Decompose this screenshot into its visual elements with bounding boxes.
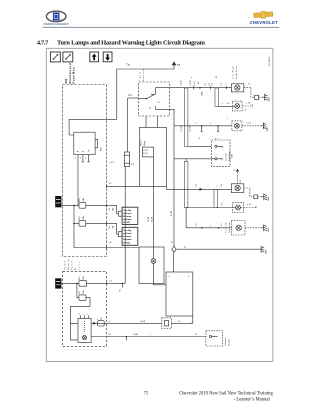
connector X2 upper (black) [55, 196, 61, 207]
svg-text:a: a [222, 147, 223, 149]
svg-text:0.5 BN: 0.5 BN [151, 216, 153, 222]
svg-text:9.2: 9.2 [149, 108, 152, 110]
svg-text:G102: G102 [265, 250, 267, 254]
pin tick box edge F16 [105, 282, 107, 285]
svg-text:Chevrolet 2010 New Sail New Te: Chevrolet 2010 New Sail New Technical Tr… [179, 392, 273, 397]
svg-text:0.5: 0.5 [109, 226, 111, 229]
svg-text:4: 4 [85, 157, 86, 159]
wire fuse F16 row [61, 282, 125, 284]
svg-text:0.5: 0.5 [195, 334, 197, 336]
svg-text:a 0.5: a 0.5 [247, 123, 251, 125]
flasher unit K.C [124, 152, 129, 167]
splice diamond [172, 246, 176, 252]
junction dot row1 [199, 87, 201, 89]
svg-text:X1: X1 [216, 76, 218, 78]
connector detail dashed box [211, 140, 230, 166]
wire module bottom to hazard row [191, 316, 193, 323]
svg-text:G201: G201 [268, 97, 270, 101]
relay pin c stub [82, 155, 84, 162]
svg-text:a: a [217, 185, 218, 187]
svg-text:9.1: 9.1 [158, 102, 161, 104]
svg-text:0.5: 0.5 [222, 203, 224, 205]
relay pin d stub [87, 155, 89, 162]
svg-text:0.5: 0.5 [178, 321, 180, 323]
loom R1 lower link [185, 159, 187, 162]
wire row6 feed [185, 208, 187, 228]
svg-text:75: 75 [144, 391, 149, 396]
wire R1 to connector detail [188, 145, 211, 147]
svg-text:0.5: 0.5 [208, 83, 210, 86]
loom R1 lower [184, 161, 188, 207]
junction dot F16 [76, 283, 78, 285]
diagram frame [46, 48, 273, 361]
pin tick X51 edge branch [105, 246, 107, 249]
module box right [166, 272, 193, 316]
connector square lamp E1 [255, 95, 259, 99]
svg-text:0.5: 0.5 [172, 241, 174, 243]
wire F17 to hazard switch [70, 298, 90, 324]
svg-text:0.5 GR: 0.5 GR [140, 321, 146, 323]
wire hazard out row [91, 322, 193, 324]
svg-text:Indicator: Indicator [123, 218, 132, 221]
toolbar icon zoom-in [63, 52, 73, 62]
wire connector detail lower feed [174, 158, 215, 160]
loom R1 upper [184, 88, 188, 146]
wire ground row7 [176, 248, 259, 250]
hazard out fuse comp [98, 321, 105, 326]
svg-text:a 0.5: a 0.5 [246, 103, 250, 105]
svg-text:Turn Sig: Turn Sig [123, 230, 132, 232]
svg-text:F17: F17 [79, 291, 81, 294]
pin tick X51 edge mid [105, 185, 107, 188]
junction dot row2 hazard [126, 336, 128, 341]
fuse F16 [79, 281, 87, 287]
wire feed to turn switch [128, 97, 139, 99]
svg-text:Rt Lamp: Rt Lamp [123, 215, 132, 218]
header rule [43, 26, 280, 28]
turn signal switch dashed box [139, 82, 170, 116]
pin ticks row1 [194, 86, 227, 89]
lamp E3 turn right rear [232, 121, 242, 131]
turn switch contact left [155, 106, 169, 109]
svg-text:0.5: 0.5 [221, 223, 223, 225]
svg-text:- Learner’s Manual: - Learner’s Manual [234, 397, 271, 402]
wire hazard out row2 [91, 336, 206, 338]
svg-text:X4 K23: X4 K23 [123, 242, 131, 245]
relay K22 box [74, 132, 98, 154]
svg-text:8: 8 [75, 157, 76, 159]
svg-text:0.5: 0.5 [196, 223, 198, 225]
svg-text:9.c: 9.c [108, 321, 110, 323]
wire instrument feed [153, 157, 155, 259]
fuse F19 [79, 203, 86, 209]
toolbar icon page-up [90, 52, 99, 62]
junction dot hazard column [122, 283, 124, 288]
ground G202 [261, 122, 267, 129]
connector square lamp E4 [254, 195, 258, 199]
svg-text:G101: G101 [268, 197, 270, 201]
svg-text:X1: X1 [198, 82, 200, 84]
svg-text:T.b: T.b [234, 169, 236, 171]
wire relay feed [69, 119, 117, 135]
svg-text:Warning: Warning [68, 260, 70, 271]
wire fuse row to hazard relay [106, 185, 139, 187]
svg-text:and Instr: and Instr [123, 232, 132, 235]
connector detail dashed small [162, 318, 172, 329]
svg-text:a: a [222, 103, 223, 105]
svg-text:F20: F20 [79, 217, 81, 220]
svg-text:F19: F19 [79, 199, 81, 202]
svg-text:a: a [210, 123, 211, 125]
svg-text:X51: X51 [64, 78, 68, 83]
wire lamp2 feed [219, 105, 235, 107]
junction dots row6 [201, 227, 220, 229]
wire lamp E2 out dashed [242, 104, 252, 107]
wire row3 [174, 125, 232, 127]
loom R2 lower [214, 189, 218, 207]
svg-text:a: a [208, 185, 209, 187]
svg-text:Turn Sig: Turn Sig [123, 210, 132, 212]
svg-text:Indicator: Indicator [123, 238, 132, 241]
lamp E1 turn right front [231, 84, 244, 92]
svg-text:Sounder: Sounder [229, 339, 231, 346]
junction dot row3 b with stub [217, 125, 219, 131]
svg-text:Lamp Front: Lamp Front [228, 151, 231, 161]
svg-text:0.5 GR: 0.5 GR [190, 125, 192, 131]
lamp E4 turn left front [231, 184, 244, 193]
svg-text:8: 8 [79, 314, 81, 315]
hazard switch pins top [81, 315, 89, 318]
svg-text:Hazard: Hazard [64, 261, 66, 270]
wire lamp5 row [186, 207, 235, 209]
svg-text:Lt Lamp: Lt Lamp [123, 235, 132, 238]
loom R2 upper [215, 88, 219, 106]
svg-text:a: a [150, 334, 151, 336]
svg-text:a 9.c: a 9.c [109, 242, 113, 244]
connector X2 lower (black) [55, 278, 61, 288]
svg-text:X2: X2 [75, 268, 77, 270]
svg-text:X1: X1 [199, 137, 201, 139]
fuse box X51 dashed outline [62, 85, 106, 257]
pin tick X51 edge F19 [105, 204, 107, 207]
turn switch lower pins [146, 116, 158, 127]
relay pin a wire to fuse junction [77, 155, 79, 206]
svg-text:Instrument: Instrument [224, 337, 227, 346]
svg-text:7: 7 [83, 314, 85, 315]
ground G101 [262, 193, 268, 200]
wire hazard switch feeds [70, 323, 78, 340]
svg-text:Lamp Rear: Lamp Rear [229, 222, 231, 233]
wire lamp E3 to ground dashed [242, 125, 261, 127]
svg-text:a: a [191, 77, 193, 78]
svg-text:Hazard: Hazard [140, 140, 143, 146]
combination switch dashed outline [63, 271, 107, 346]
junction dot F19 [73, 205, 75, 207]
hazard switch box [78, 318, 91, 342]
svg-text:0.5 BU: 0.5 BU [190, 79, 192, 85]
wire lamp5 out dashed [241, 206, 257, 209]
wire left-turn row4 [166, 186, 231, 189]
svg-text:2: 2 [87, 314, 89, 315]
svg-text:X2: X2 [245, 110, 247, 112]
indicator module box 2 [118, 227, 138, 245]
svg-text:6: 6 [80, 157, 81, 159]
wire F20 branch to instrument box [74, 223, 139, 247]
svg-text:Switch: Switch [142, 68, 145, 81]
instrument box mid [139, 247, 164, 284]
svg-text:9.8: 9.8 [108, 334, 110, 336]
svg-text:CHEVROLET: CHEVROLET [250, 20, 278, 25]
svg-text:a 0.5: a 0.5 [247, 204, 251, 206]
svg-text:4.7.7: 4.7.7 [37, 39, 49, 46]
wire row3 corner [169, 109, 174, 126]
wire lamp E1 to ground dashed [244, 88, 262, 98]
junction dot F20 [73, 223, 75, 225]
svg-text:K.C: K.C [128, 94, 132, 97]
svg-text:0.5 BU: 0.5 BU [181, 79, 183, 85]
svg-text:X1: X1 [215, 137, 217, 139]
svg-text:9.2: 9.2 [110, 281, 113, 283]
svg-text:Dashboard: Dashboard [68, 63, 72, 83]
svg-text:X4 K22: X4 K22 [123, 221, 131, 224]
hazard relay solid box [140, 127, 167, 186]
relay pin dots inside [77, 150, 89, 152]
svg-text:SHANGHAI GM DAEWOO: SHANGHAI GM DAEWOO [43, 23, 69, 26]
wire instrument to module [154, 263, 167, 284]
svg-text:a: a [227, 118, 228, 120]
wire lamp E6 to ground dashed [245, 227, 261, 229]
svg-text:G103: G103 [268, 228, 270, 232]
wire battery feed T.a [117, 69, 169, 119]
wire right-turn row1 [169, 87, 231, 89]
svg-text:0.5 GR: 0.5 GR [181, 125, 183, 131]
splice arrow row4 [200, 188, 204, 191]
svg-text:Turn Left: Turn Left [225, 153, 228, 161]
svg-text:0.5: 0.5 [109, 208, 111, 211]
wire hazard feed to module [173, 252, 175, 272]
header logo right (chevrolet bowtie) [254, 11, 273, 19]
instrument cluster dashed box [206, 331, 223, 346]
fuse F20 [79, 221, 86, 227]
svg-text:Switch: Switch [71, 261, 74, 270]
wire lamp E4 to ground dashed [244, 188, 262, 197]
svg-text:Turn Lamps and Hazard Warning: Turn Lamps and Hazard Warning Lights Cir… [57, 39, 206, 46]
fuse F17 [79, 295, 86, 300]
svg-text:S3100468: S3100468 [269, 56, 271, 66]
wire fuse F20 row [74, 223, 118, 234]
svg-text:0.5: 0.5 [221, 184, 223, 186]
svg-text:0.5: 0.5 [119, 289, 121, 291]
svg-text:a: a [169, 276, 170, 278]
svg-text:F16: F16 [79, 277, 81, 280]
svg-text:b: b [188, 276, 189, 278]
junction dot row3 a with stub [201, 125, 203, 131]
svg-text:0.5: 0.5 [227, 103, 229, 105]
ground G201 [262, 94, 267, 101]
svg-text:S201: S201 [202, 92, 204, 96]
svg-text:0.5 BK: 0.5 BK [171, 210, 173, 216]
svg-text:0.5 Vi: 0.5 Vi [194, 80, 196, 85]
svg-text:0.5: 0.5 [240, 180, 242, 182]
svg-text:0.5: 0.5 [212, 83, 214, 86]
turn switch contact right [151, 88, 169, 95]
wire flasher column upper [127, 98, 129, 152]
svg-text:G202: G202 [267, 127, 269, 131]
lamp E6 turn left rear [231, 221, 245, 236]
svg-text:and Instr: and Instr [123, 212, 132, 215]
svg-text:Relay: Relay [144, 141, 146, 146]
svg-text:F: F [97, 319, 99, 320]
svg-text:Lamp Front: Lamp Front [235, 66, 238, 79]
svg-text:Turn Left: Turn Left [225, 222, 228, 234]
svg-text:Fuse Box: Fuse Box [72, 67, 76, 84]
wire lamp6 row [186, 227, 231, 229]
svg-text:0.5: 0.5 [196, 184, 198, 186]
splice arrow hazard out [93, 322, 96, 325]
svg-text:b: b [222, 160, 223, 162]
svg-text:0.5 BN: 0.5 BN [133, 334, 139, 336]
ground G103 [261, 224, 267, 231]
svg-text:T.a.: T.a. [126, 63, 130, 67]
lamp E5 side repeater left [233, 203, 244, 213]
lamp E2 side repeater right [232, 101, 242, 111]
header logo left (SGM ellipse emblem) [46, 11, 66, 22]
svg-text:9.5: 9.5 [109, 183, 112, 185]
indicator module box 1 [118, 207, 138, 224]
svg-text:0.5: 0.5 [205, 83, 207, 86]
svg-text:Turn Right: Turn Right [232, 66, 235, 79]
svg-text:EC 4.7: EC 4.7 [143, 153, 148, 155]
wire hazard feed vertical [173, 126, 175, 246]
svg-text:X202: X202 [231, 154, 233, 158]
svg-text:1a: 1a [184, 247, 186, 249]
offpage connector arrow B+ [169, 62, 176, 69]
svg-text:0.5: 0.5 [221, 83, 223, 86]
ground G102 row7 [259, 246, 265, 253]
svg-text:a: a [210, 225, 211, 227]
offpage arrow above lamp E4 [236, 169, 239, 184]
svg-text:a: a [226, 84, 228, 85]
svg-text:0.5 BN: 0.5 BN [148, 216, 150, 222]
turn switch blade [139, 95, 155, 100]
toolbar icon zoom-out [50, 52, 60, 62]
toolbar icon page-down [103, 52, 112, 62]
wire flasher column lower to hazard fuse row [124, 167, 126, 284]
svg-text:X d: X d [131, 163, 134, 165]
wire F17 drop [77, 283, 79, 297]
wire F19-F20 link [73, 205, 75, 223]
pin tick X51 edge F20 [105, 222, 107, 225]
svg-text:S 31.0: S 31.0 [143, 150, 148, 152]
wire fuse F19 row [61, 205, 118, 213]
svg-text:a: a [196, 123, 197, 125]
